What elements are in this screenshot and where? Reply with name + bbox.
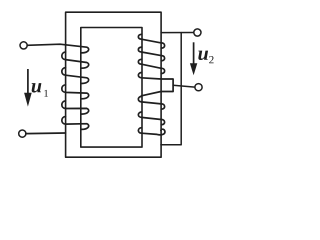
- arrow u1 (voltage reference, left): [24, 69, 32, 107]
- winding N2 (right limb): [138, 34, 173, 135]
- N2 lower turn 3 with bottom end hook: [138, 128, 165, 135]
- N1 turn 5: [62, 101, 89, 114]
- arrow u2 (voltage reference, right): [190, 42, 197, 75]
- label u1: [32, 83, 48, 97]
- wire from top-right node down and left to N2 bottom end: [161, 33, 181, 145]
- wire from N2 top to top-right terminal: [161, 32, 194, 34]
- wire from tap loop to bottom-right terminal: [173, 85, 195, 87]
- wire lead from winding N1 bottom to bottom-left terminal: [26, 132, 66, 135]
- N2 turn 3: [138, 59, 164, 73]
- terminal top-left: [20, 42, 27, 49]
- N1 turn 2: [62, 52, 89, 68]
- terminal bottom-right: [195, 84, 202, 91]
- terminal bottom-left: [19, 130, 26, 137]
- N2 turn 1: [138, 34, 164, 48]
- N1 turn 4: [62, 85, 89, 99]
- N2 turn 2: [138, 47, 164, 61]
- core outer rectangle: [66, 12, 162, 157]
- N2 lower turn 2: [138, 112, 164, 125]
- winding N1 (left limb): [26, 44, 89, 133]
- label u2: [198, 51, 213, 64]
- wire lead from top-left terminal into winding turn 1: [27, 44, 88, 53]
- terminal top-right: [194, 29, 201, 36]
- N1 turn 6: [62, 117, 89, 130]
- core inner rectangle (window): [81, 28, 142, 148]
- N2 lower turn 1: [138, 96, 164, 109]
- N1 turn 3: [62, 68, 89, 84]
- N2 tap turn loop pulled out to the right: [138, 73, 173, 96]
